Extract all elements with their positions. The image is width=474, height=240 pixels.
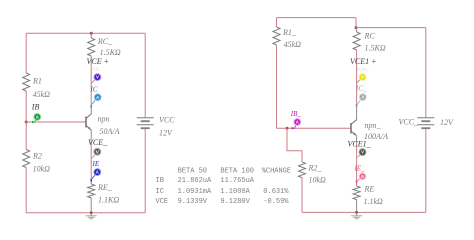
resistor R1 [23,73,50,99]
voltmeter VCE_ [88,138,108,158]
svg-text:IB_: IB_ [290,110,302,118]
svg-text:npn_: npn_ [365,121,382,130]
node: R2_ branch junction [286,127,289,130]
svg-text:1.0931mA: 1.0931mA [178,188,212,196]
svg-text:VCE1_: VCE1_ [357,67,371,72]
svg-text:50A/A: 50A/A [100,127,120,136]
svg-text:VCC: VCC [159,116,175,125]
svg-text:12V: 12V [440,118,454,127]
wire: left branch to base corner [276,45,278,128]
wire: R2_ to bottom rail [301,178,303,213]
wire: battery branch upper [425,28,427,118]
svg-text:1.1kΩ: 1.1kΩ [364,197,384,206]
wire: base wire right circuit [277,127,352,129]
wire: RE lead to bottom rail [356,200,358,213]
svg-text:IC: IC [90,86,98,94]
voltmeter VCE1_ [348,140,372,158]
svg-text:21.862uA: 21.862uA [178,177,212,185]
wire: collector branch RC to transistor [90,56,92,105]
svg-text:IC_: IC_ [355,84,367,92]
resistor R1_ [273,27,301,49]
resistor RC_ [88,37,121,57]
resistor RE_ [88,183,120,205]
node: bottom junction of emitter branch [90,211,93,214]
svg-text:VCE_: VCE_ [91,67,102,72]
wire: collector branch top stub [90,33,92,38]
svg-text:A: A [296,120,299,125]
svg-text:-0.59%: -0.59% [263,198,289,206]
wire: left branch upper (to R1) [25,33,27,73]
svg-text:BETA 100: BETA 100 [220,167,254,175]
wire: collector branch top stub right [356,28,358,32]
ammeter IE_ [354,164,366,185]
ammeter IE [90,160,101,183]
wire: RE_ lead to bottom rail [90,198,92,213]
svg-text:A: A [96,170,99,175]
svg-text:IB: IB [31,103,40,112]
ground right circuit [351,212,362,218]
node: top junction of collector branch [90,32,93,35]
svg-text:IB: IB [156,177,164,185]
svg-text:R2: R2 [32,152,42,161]
svg-text:RC: RC [364,32,376,41]
svg-text:10kΩ: 10kΩ [309,176,327,185]
svg-text:A: A [361,174,364,179]
svg-text:RC_: RC_ [97,37,113,46]
node: RC top junction [355,26,358,29]
wire: left branch between base node and R2 [25,122,27,150]
svg-text:VCC_: VCC_ [399,118,420,127]
svg-text:12V: 12V [159,129,173,138]
wire: RC to transistor collector [356,50,358,105]
svg-text:R1_: R1_ [282,28,297,37]
svg-text:V: V [96,149,99,154]
svg-text:npn: npn [98,115,110,124]
wire: base wire left circuit [26,121,86,123]
resistor R2 [23,150,50,174]
wire: bottom rail right circuit [302,211,426,213]
svg-text:11.765uA: 11.765uA [220,177,254,185]
svg-text:VCE: VCE [156,198,169,206]
svg-text:9.1280V: 9.1280V [220,198,250,206]
svg-text:A: A [96,95,99,100]
wire: left branch top right circuit [276,18,278,27]
wire: R2_ branch down and right [287,128,302,162]
node: base junction left [25,121,28,124]
svg-text:VCE +: VCE + [87,57,110,66]
svg-text:10kΩ: 10kΩ [33,165,51,174]
battery VCC_ 12V [399,118,455,129]
svg-text:1.5KΩ: 1.5KΩ [100,48,121,57]
svg-text:A: A [361,95,364,100]
resistor RE [353,185,383,207]
wire: emitter branch to RE_ [90,136,92,184]
svg-text:V: V [96,75,99,80]
ammeter IC [90,86,102,110]
battery VCC 12V [137,116,176,138]
wire: top right corner down to RC node [355,18,357,28]
svg-text:1.1KΩ: 1.1KΩ [98,196,119,205]
wire: to battery branch top [356,27,426,29]
transistor Q2 npn_ [351,104,388,142]
svg-text:BETA 50: BETA 50 [178,167,207,175]
svg-text:%CHANGE: %CHANGE [262,167,291,175]
transistor Q1 npn [86,104,120,136]
svg-text:9.1339V: 9.1339V [178,198,208,206]
svg-text:R2_: R2_ [308,164,323,173]
svg-text:IC: IC [156,188,164,196]
voltmeter VCE1 + [350,57,377,83]
svg-text:RE: RE [364,185,375,194]
svg-text:VCE1 +: VCE1 + [350,57,377,66]
svg-text:1.5KΩ: 1.5KΩ [365,44,386,53]
svg-text:R1: R1 [32,77,42,86]
svg-text:45kΩ: 45kΩ [33,90,51,99]
wire: top rail right circuit [277,17,357,19]
ammeter IC_ [355,84,367,108]
svg-text:VCE1_: VCE1_ [348,140,372,149]
svg-text:A: A [36,114,39,119]
ground left circuit [86,213,97,219]
wire: emitter branch to RE right [356,142,358,186]
node: bottom junction right circuit [355,211,358,214]
svg-text:45kΩ: 45kΩ [284,40,302,49]
wire: left branch lower to bottom rail [25,168,27,213]
svg-text:IE: IE [92,160,100,168]
resistor R2_ [299,162,327,185]
svg-text:RE_: RE_ [97,183,113,192]
wire: right side upper (to battery VCC) [144,33,146,117]
svg-text:1.1000A: 1.1000A [220,188,250,196]
svg-text:V: V [361,75,364,80]
ammeter IB_ [290,110,302,129]
svg-text:IE_: IE_ [354,164,366,172]
wire: top rail left circuit [26,32,145,34]
svg-text:V: V [361,150,364,155]
wire: battery branch lower [425,129,427,213]
voltmeter VCE + [87,57,110,84]
svg-text:VCE_: VCE_ [88,138,108,147]
svg-text:0.631%: 0.631% [263,188,289,196]
wire: left branch between R1 and base node [25,91,27,122]
resistor RC [353,32,386,53]
wire: bottom rail left circuit [26,212,145,214]
ammeter IB [31,103,41,124]
wire: right side lower (battery to bottom rail) [144,129,146,213]
